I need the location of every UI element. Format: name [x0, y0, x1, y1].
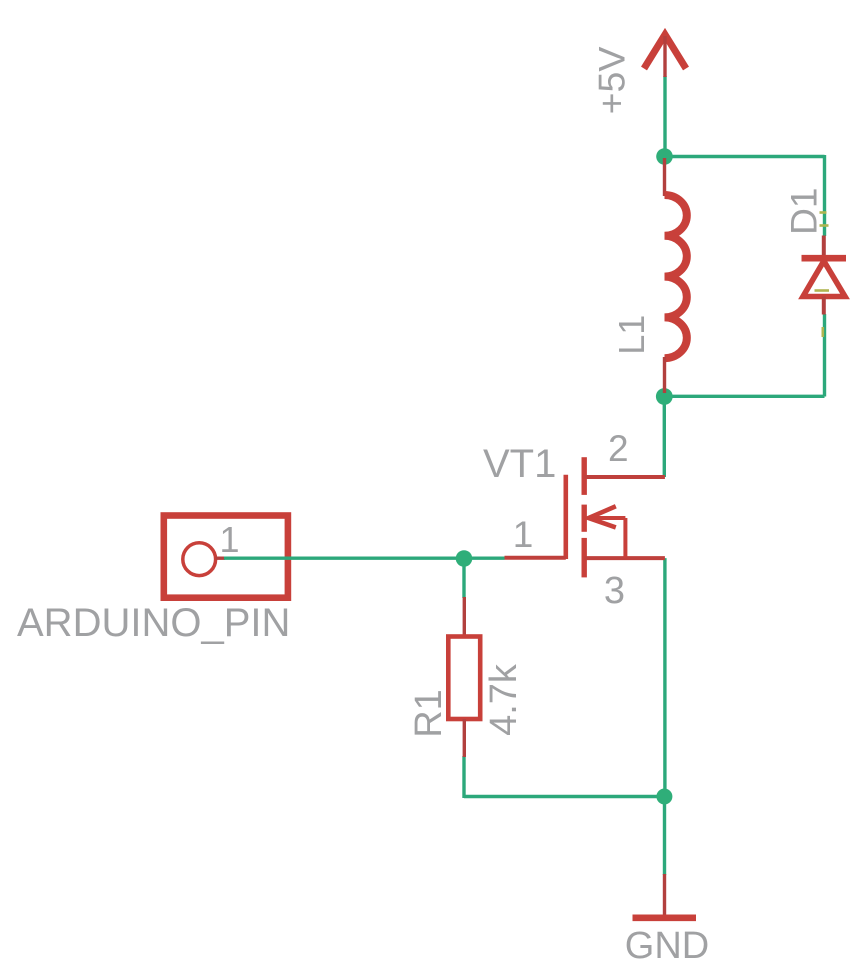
wire from node C down to R1 top: [462, 559, 465, 599]
wire diode branch vertical lower: [823, 314, 826, 397]
wire +5V net vertical from power symbol to node A: [663, 76, 666, 157]
ground: [633, 874, 697, 918]
wire from ARDUINO_PIN pin 1 to node C: [224, 557, 464, 560]
svg-text:4.7k: 4.7k: [483, 663, 525, 736]
pin number 1 of ARDUINO_PIN: [219, 519, 239, 560]
wire diode branch vertical upper: [823, 155, 826, 236]
connector ARDUINO_PIN: [164, 516, 288, 598]
svg-text:D1: D1: [784, 188, 825, 235]
svg-text:GND: GND: [625, 925, 709, 967]
svg-text:3: 3: [604, 570, 625, 612]
label D1: [784, 188, 825, 235]
+5V power symbol: [644, 35, 686, 78]
wire source net from VT1 pin 3 down to node D: [663, 558, 666, 796]
label VT1: [483, 442, 556, 486]
node C junction: [456, 550, 473, 567]
pin number 3 of VT1: [604, 570, 625, 612]
svg-text:R1: R1: [408, 689, 450, 738]
pin name marks of D1 (tiny olive): [815, 213, 830, 338]
wire drain net from node B down to VT1 pin 2: [663, 396, 666, 477]
wire +5V net horizontal from node A to diode branch: [665, 155, 825, 158]
label +5V: [591, 47, 633, 115]
inductor L1: [665, 158, 687, 393]
transistor VT1: [505, 457, 665, 577]
label R1: [408, 689, 450, 738]
svg-text:VT1: VT1: [483, 442, 556, 486]
node A junction: [656, 148, 673, 165]
label L1: [611, 315, 652, 355]
svg-text:L1: L1: [611, 315, 652, 355]
wire gate net from node C to VT1 pin 1: [464, 557, 505, 560]
wire from R1 bottom lead vertical: [462, 756, 465, 798]
label 4.7k: [483, 663, 525, 736]
svg-text:2: 2: [608, 428, 629, 469]
diode D1: [802, 236, 847, 315]
svg-text:ARDUINO_PIN: ARDUINO_PIN: [17, 601, 290, 645]
wire gnd vertical from node D to ground symbol: [663, 797, 666, 876]
pin number 1 of VT1: [513, 514, 534, 555]
node B junction: [656, 388, 673, 405]
label GND: [625, 925, 709, 967]
wire from R1 bottom to node D horizontal: [464, 795, 665, 798]
svg-text:1: 1: [513, 514, 534, 555]
node D junction: [656, 789, 672, 805]
wire bottom of diode loop horizontal to node B: [665, 395, 825, 398]
label ARDUINO_PIN: [17, 601, 290, 645]
svg-text:+5V: +5V: [591, 47, 633, 115]
svg-text:1: 1: [219, 519, 239, 560]
resistor R1: [448, 597, 480, 757]
pin number 2 of VT1: [608, 428, 629, 469]
